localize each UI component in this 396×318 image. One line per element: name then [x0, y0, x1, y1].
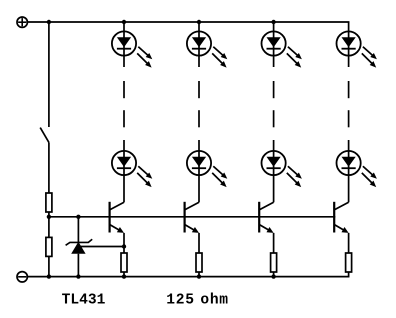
svg-text:TL431: TL431 — [62, 293, 106, 309]
svg-text:125: 125 — [166, 293, 194, 309]
svg-text:ohm: ohm — [200, 293, 228, 309]
